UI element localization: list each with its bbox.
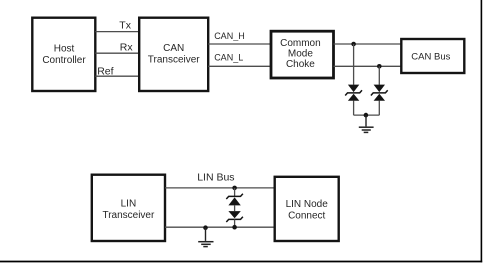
svg-text:CAN_L: CAN_L — [214, 52, 243, 62]
wire net CAN_H (CAN Transceiver to Common Mode Choke) — [208, 43, 271, 45]
TVS diode D3 (LIN bus protection) — [226, 194, 243, 222]
ground (LIN) — [198, 228, 213, 247]
wire D2 lower lead — [378, 101, 380, 116]
wire D1 lower lead — [353, 101, 355, 116]
block LIN Node Connect — [275, 177, 339, 241]
svg-text:Common: Common — [280, 38, 321, 49]
svg-text:Transceiver: Transceiver — [148, 55, 201, 66]
block LIN Transceiver — [92, 175, 165, 241]
svg-text:Controller: Controller — [42, 55, 86, 66]
junction on CAN_H — [351, 42, 356, 47]
svg-text:Choke: Choke — [286, 59, 315, 70]
junction LIN bus at D3 — [232, 186, 237, 191]
junction D3 return — [232, 225, 237, 230]
wire D3 bottom lead — [234, 219, 236, 227]
wire net LIN Bus (LIN Transceiver to LIN Node Connect) — [165, 187, 275, 189]
ground (CAN TVS) — [359, 115, 374, 132]
svg-text:Ref: Ref — [97, 65, 113, 77]
svg-text:LIN Node: LIN Node — [286, 199, 329, 210]
wire D3 top lead — [234, 188, 236, 197]
block CAN Bus — [401, 39, 464, 73]
wire CAN_H TVS branch (down to diode) — [353, 44, 355, 85]
svg-text:Connect: Connect — [288, 210, 325, 221]
wire Rx (Host Controller to CAN Transceiver) — [95, 52, 139, 54]
wire CAN_L TVS branch (down to diode) — [378, 66, 380, 85]
block Host Controller — [32, 18, 95, 91]
wire net CAN_L (CAN Transceiver to Common Mode Choke) — [208, 65, 271, 67]
svg-text:Mode: Mode — [288, 49, 313, 60]
wire net CAN_L (Common Mode Choke to CAN Bus) — [334, 65, 402, 67]
wire Tx (Host Controller to CAN Transceiver) — [95, 31, 139, 33]
TVS diode D1 (CAN_H protection) — [345, 85, 362, 101]
wire LIN return (LIN Transceiver to LIN Node Connect) — [165, 226, 275, 228]
block Common Mode Choke — [271, 31, 334, 78]
svg-text:Tx: Tx — [119, 20, 131, 32]
svg-text:CAN_H: CAN_H — [214, 31, 245, 41]
svg-text:Bus: Bus — [434, 52, 451, 63]
junction on CAN_L — [377, 64, 382, 69]
svg-text:CAN: CAN — [163, 43, 184, 54]
block CAN Transceiver — [139, 18, 208, 91]
TVS diode D2 (CAN_L protection) — [371, 85, 388, 101]
junction LIN ground tap — [203, 225, 208, 230]
svg-text:LIN Bus: LIN Bus — [197, 172, 234, 184]
svg-text:LIN: LIN — [121, 198, 137, 209]
svg-text:Host: Host — [54, 44, 75, 55]
svg-text:Rx: Rx — [120, 41, 134, 53]
wire Ref (Host Controller to CAN Transceiver) — [95, 75, 139, 77]
wire TVS common rail — [354, 114, 380, 116]
wire net CAN_H (Common Mode Choke to CAN Bus) — [334, 43, 402, 45]
svg-text:Transceiver: Transceiver — [102, 210, 155, 221]
svg-text:CAN: CAN — [411, 52, 431, 63]
junction TVS common — [364, 113, 369, 118]
